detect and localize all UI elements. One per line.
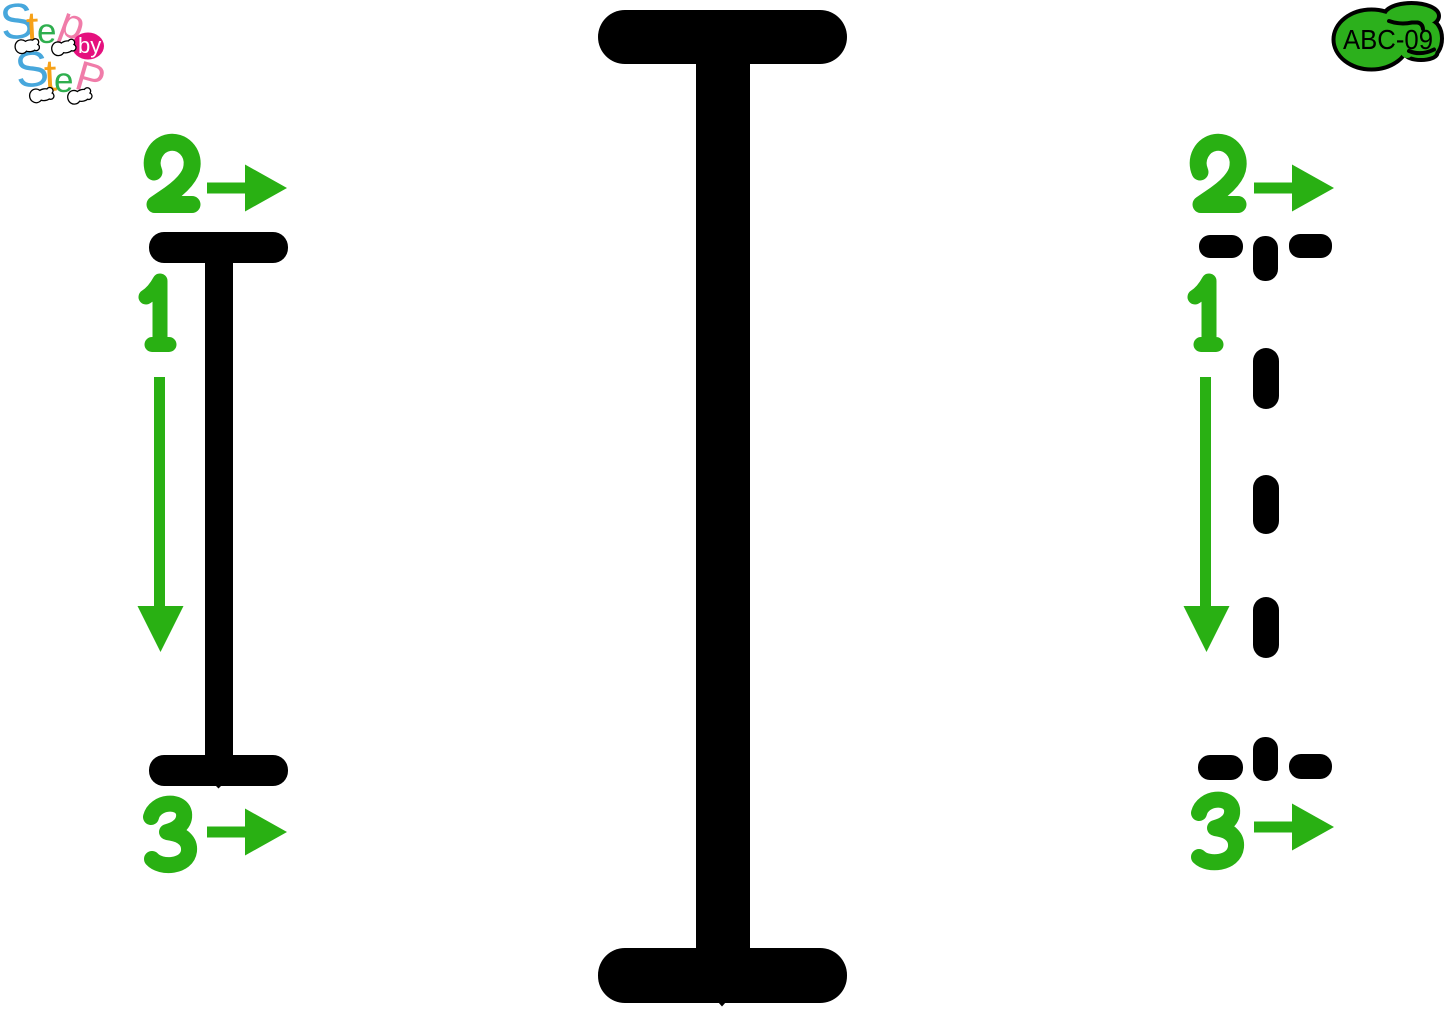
badge crease top [1389,21,1423,29]
big I vertical stem [696,30,750,990]
dashed I bottom bar right dash [1289,754,1332,779]
big I bottom bar [598,948,847,1003]
footprint 3 [29,87,54,103]
ABC-09 badge blob [1336,5,1441,68]
big I bottom tick [718,1002,726,1007]
right dashed letter I [1198,234,1332,781]
big I top bar [598,10,847,64]
left small letter I (solid) [149,232,288,789]
svg-text:ABC-09: ABC-09 [1343,24,1433,55]
big letter I (center) [598,10,847,1007]
footprint 4 [67,87,92,105]
left down arrow for step 1 [138,377,184,652]
right arrow for step 3 [1254,804,1334,851]
left digit 2 (green) [152,142,192,204]
right down arrow for step 1 [1184,377,1230,652]
left I vertical stem [205,245,233,770]
left I bottom bar [149,755,288,786]
by bubble [72,33,104,60]
dashed I stem dash 2 [1253,475,1279,534]
badge crease bottom [1409,50,1434,54]
dashed I bottom bar left dash [1198,755,1243,780]
right digit 2 (green) [1198,142,1238,204]
dashed I stem dash 3 [1253,597,1279,658]
dashed I stem dash 1 [1253,348,1279,409]
Step by Step logo [0,0,110,105]
left arrow for step 3 [207,809,287,856]
dashed I top bar center dash [1253,236,1278,281]
footprint 2 [51,38,76,56]
dashed I bottom bar center dash [1253,737,1278,781]
left I top bar [149,232,288,263]
left I bottom tick [215,785,222,789]
footprint 1 [15,38,39,53]
dashed I top bar right dash [1289,234,1332,258]
right digit 3 (green) [1199,800,1236,863]
left arrow for step 2 [207,165,287,212]
left digit 1 (green) [146,281,169,345]
dashed I top bar left dash [1199,235,1243,258]
right arrow for step 2 [1254,165,1334,212]
left digit 3 (green) [151,804,189,865]
right digit 1 (green) [1195,281,1216,345]
